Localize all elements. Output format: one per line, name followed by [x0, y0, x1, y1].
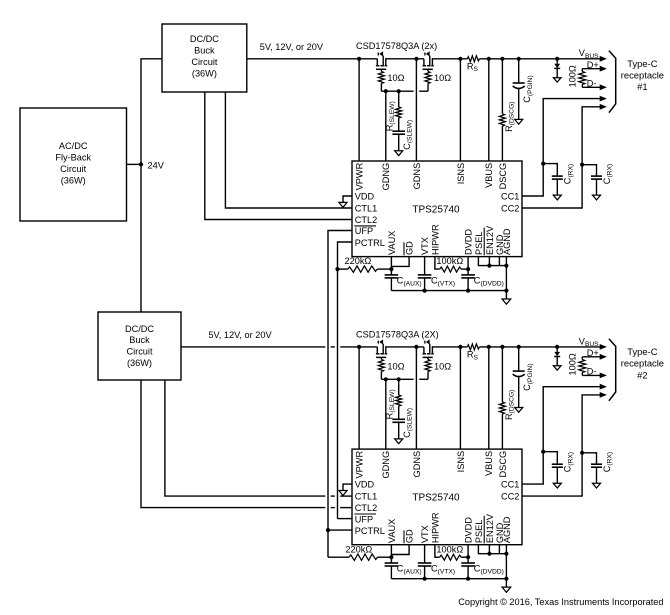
- svg-text:(36W): (36W): [61, 175, 86, 185]
- svg-text:CTL1: CTL1: [355, 492, 377, 502]
- svg-text:GDNG: GDNG: [381, 451, 391, 479]
- svg-text:220kΩ: 220kΩ: [345, 544, 372, 554]
- svg-text:(36W): (36W): [192, 69, 217, 79]
- svg-text:VTX: VTX: [420, 237, 430, 255]
- svg-text:CC1: CC1: [501, 479, 519, 489]
- svg-text:10Ω: 10Ω: [434, 361, 451, 371]
- svg-text:D-: D-: [587, 367, 597, 377]
- svg-text:VTX: VTX: [420, 525, 430, 543]
- svg-text:GD: GD: [405, 241, 415, 255]
- svg-text:D-: D-: [587, 78, 597, 88]
- svg-text:VBUS: VBUS: [484, 163, 494, 188]
- svg-text:AC/DC: AC/DC: [59, 141, 88, 151]
- svg-text:PSEL: PSEL: [474, 520, 484, 544]
- svg-text:10Ω: 10Ω: [387, 361, 404, 371]
- svg-text:100Ω: 100Ω: [567, 65, 577, 87]
- svg-text:GDNG: GDNG: [381, 163, 391, 191]
- svg-text:10Ω: 10Ω: [434, 73, 451, 83]
- svg-text:VDD: VDD: [355, 192, 375, 202]
- svg-text:DSCG: DSCG: [498, 451, 508, 478]
- svg-text:24V: 24V: [148, 160, 165, 170]
- svg-text:#1: #1: [637, 81, 647, 92]
- svg-text:receptacle: receptacle: [621, 358, 664, 369]
- svg-text:CTL1: CTL1: [355, 204, 377, 214]
- svg-text:220kΩ: 220kΩ: [345, 256, 372, 266]
- svg-text:CC1: CC1: [501, 191, 519, 201]
- svg-text:100kΩ: 100kΩ: [436, 544, 463, 554]
- svg-text:PSEL: PSEL: [474, 232, 484, 256]
- svg-text:VBUS: VBUS: [484, 451, 494, 476]
- svg-text:CSD17578Q3A (2X): CSD17578Q3A (2X): [356, 329, 439, 339]
- svg-text:CC2: CC2: [501, 491, 519, 501]
- svg-text:VDD: VDD: [355, 480, 375, 490]
- svg-text:Type-C: Type-C: [627, 346, 657, 357]
- svg-text:HIPWR: HIPWR: [430, 512, 440, 543]
- svg-text:Circuit: Circuit: [191, 57, 217, 67]
- svg-text:GD: GD: [405, 529, 415, 543]
- svg-text:PCTRL: PCTRL: [355, 238, 385, 248]
- svg-text:Buck: Buck: [194, 46, 215, 56]
- svg-text:VPWR: VPWR: [355, 451, 365, 479]
- svg-text:100kΩ: 100kΩ: [436, 256, 463, 266]
- svg-text:(36W): (36W): [127, 358, 152, 368]
- svg-text:GDNS: GDNS: [412, 163, 422, 190]
- svg-text:PCTRL: PCTRL: [355, 526, 385, 536]
- svg-text:DC/DC: DC/DC: [190, 34, 219, 44]
- svg-text:100Ω: 100Ω: [567, 353, 577, 375]
- svg-text:CTL2: CTL2: [355, 503, 377, 513]
- svg-text:VAUX: VAUX: [387, 231, 397, 255]
- svg-text:D+: D+: [587, 60, 599, 70]
- svg-text:5V, 12V, or 20V: 5V, 12V, or 20V: [208, 330, 272, 340]
- svg-text:Circuit: Circuit: [60, 164, 86, 174]
- svg-text:Buck: Buck: [129, 335, 150, 345]
- svg-text:DSCG: DSCG: [498, 163, 508, 190]
- svg-text:ISNS: ISNS: [456, 451, 466, 472]
- svg-text:CTL2: CTL2: [355, 215, 377, 225]
- svg-text:EN12V: EN12V: [485, 225, 495, 255]
- svg-text:Type-C: Type-C: [627, 58, 657, 69]
- svg-text:receptacle: receptacle: [621, 70, 664, 81]
- svg-text:DVDD: DVDD: [464, 229, 474, 255]
- svg-text:Copyright © 2016, Texas Instru: Copyright © 2016, Texas Instruments Inco…: [458, 597, 663, 607]
- svg-text:EN12V: EN12V: [485, 513, 495, 543]
- svg-text:TPS25740: TPS25740: [412, 493, 460, 504]
- svg-text:VPWR: VPWR: [355, 162, 365, 190]
- svg-text:GDNS: GDNS: [412, 451, 422, 478]
- svg-text:UFP: UFP: [355, 514, 373, 524]
- svg-text:CC2: CC2: [501, 203, 519, 213]
- svg-text:#2: #2: [637, 369, 647, 380]
- svg-text:DVDD: DVDD: [464, 517, 474, 543]
- svg-text:Fly-Back: Fly-Back: [55, 152, 91, 162]
- svg-text:5V, 12V, or 20V: 5V, 12V, or 20V: [260, 42, 324, 52]
- svg-text:HIPWR: HIPWR: [430, 224, 440, 255]
- svg-text:VAUX: VAUX: [387, 519, 397, 543]
- svg-text:DC/DC: DC/DC: [125, 324, 154, 334]
- svg-text:AGND: AGND: [502, 516, 512, 543]
- svg-text:UFP: UFP: [355, 226, 373, 236]
- svg-text:ISNS: ISNS: [456, 163, 466, 184]
- svg-text:10Ω: 10Ω: [387, 73, 404, 83]
- svg-text:CSD17578Q3A (2x): CSD17578Q3A (2x): [356, 41, 437, 51]
- svg-text:D+: D+: [587, 348, 599, 358]
- svg-text:Circuit: Circuit: [126, 347, 152, 357]
- svg-text:TPS25740: TPS25740: [412, 204, 460, 215]
- svg-text:AGND: AGND: [502, 228, 512, 255]
